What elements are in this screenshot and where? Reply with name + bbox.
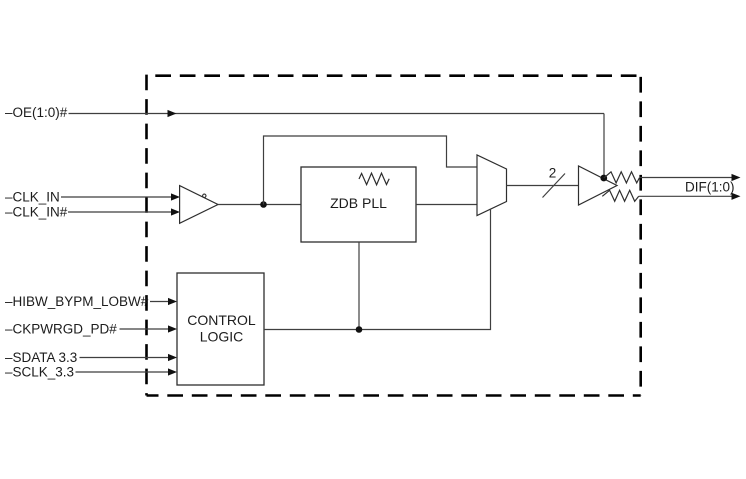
wire CLK_IN#: [68, 211, 172, 213]
svg-text:–CLK_IN#: –CLK_IN#: [5, 205, 68, 220]
wire DIF complement output: [639, 195, 733, 197]
junction node at buffer output: [260, 201, 267, 208]
block ZDB PLL: [301, 167, 416, 242]
svg-text:2: 2: [549, 166, 557, 181]
wire buffer output to ZDB PLL: [218, 204, 301, 206]
svg-text:DIF(1:0): DIF(1:0): [685, 180, 735, 195]
svg-text:LOGIC: LOGIC: [200, 329, 244, 345]
wire OE horizontal: [69, 113, 605, 115]
dashed IC boundary box: [147, 75, 641, 396]
bus width slash: [543, 174, 566, 198]
junction node OE at output buffer: [600, 175, 607, 182]
arrowhead SCLK: [168, 368, 177, 375]
wire OE vertical to output buffer: [603, 114, 605, 179]
arrowhead CKPWRGD_PD#: [168, 325, 177, 332]
arrowhead CLK_IN#: [171, 208, 180, 215]
wire CKPWRGD_PD#: [120, 328, 169, 330]
resistor R upper output: [604, 172, 640, 183]
block CONTROL LOGIC: [177, 273, 264, 385]
wire SCLK: [76, 371, 169, 373]
arrowhead HIBW_BYPM_LOBW#: [168, 298, 177, 305]
svg-text:–OE(1:0)#: –OE(1:0)#: [5, 105, 68, 120]
wire ZDB PLL output to mux: [416, 204, 477, 206]
arrowhead SDATA: [168, 354, 177, 361]
resistor R lower output: [602, 190, 638, 201]
svg-text:CONTROL: CONTROL: [187, 312, 256, 328]
svg-text:–SCLK_3.3: –SCLK_3.3: [5, 365, 74, 380]
wire control logic output to mux select: [264, 209, 491, 330]
wire CLK_IN: [61, 196, 172, 198]
junction node control/PLL: [356, 326, 363, 333]
wire mux output to output buffer: [507, 185, 579, 187]
input buffer triangle: [180, 186, 218, 224]
wire SDATA: [80, 357, 169, 359]
arrowhead DIF true: [732, 174, 741, 181]
wire feedback bypass (junction up, over, down to mux): [264, 136, 478, 205]
svg-text:ZDB PLL: ZDB PLL: [330, 195, 387, 211]
mux trapezoid: [477, 155, 507, 216]
wire ZDB PLL bottom to control net: [358, 242, 360, 330]
svg-text:–SDATA 3.3: –SDATA 3.3: [5, 350, 77, 365]
svg-text:–HIBW_BYPM_LOBW#: –HIBW_BYPM_LOBW#: [5, 294, 149, 309]
svg-text:–CKPWRGD_PD#: –CKPWRGD_PD#: [5, 322, 117, 337]
resistor symbol inside ZDB PLL: [359, 173, 389, 185]
svg-text:–CLK_IN: –CLK_IN: [5, 190, 60, 205]
inversion bubble on input buffer: [203, 194, 206, 197]
arrowhead OE: [168, 110, 177, 117]
arrowhead DIF complement: [732, 193, 741, 200]
arrowhead CLK_IN: [171, 193, 180, 200]
wire HIBW_BYPM_LOBW#: [150, 301, 169, 303]
output buffer triangle: [579, 166, 618, 205]
wire DIF true output: [640, 177, 733, 179]
